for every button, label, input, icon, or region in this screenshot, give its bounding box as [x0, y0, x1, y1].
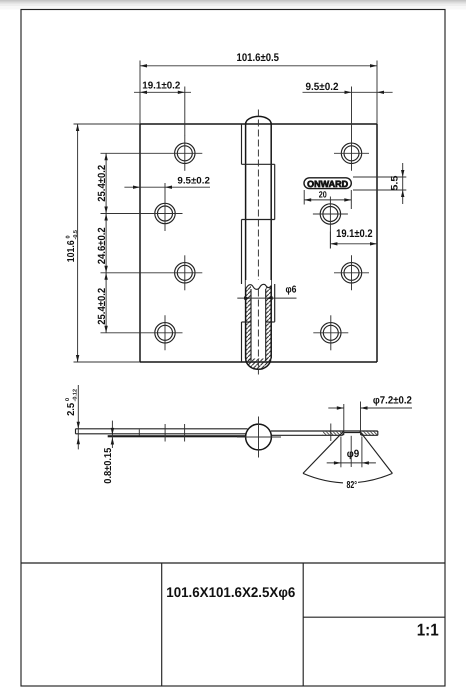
svg-text:0: 0 — [66, 235, 72, 238]
dimension φ9 countersink mouth — [327, 436, 376, 468]
dimension φ6 pin — [237, 285, 297, 300]
svg-text:20: 20 — [319, 190, 327, 200]
knuckle division line 1 — [242, 163, 275, 165]
left leaf top surface — [76, 428, 248, 430]
svg-text:101.6: 101.6 — [66, 240, 77, 262]
svg-text:5.5: 5.5 — [389, 175, 400, 191]
dimension 5.5 logo height — [353, 163, 406, 204]
svg-text:82°: 82° — [347, 480, 358, 491]
dimension 101.6±0.5 width — [140, 52, 377, 124]
svg-text:9.5±0.2: 9.5±0.2 — [306, 81, 339, 93]
hole R4 — [313, 315, 348, 350]
projection tick hole col A — [184, 424, 186, 442]
title block top line — [21, 562, 445, 564]
countersink angle fan left line — [303, 431, 344, 474]
knuckle top dome — [246, 116, 272, 124]
countersink slope left — [343, 433, 344, 436]
svg-text:24.6±0.2: 24.6±0.2 — [96, 227, 108, 264]
pin bore section hatch right wall — [266, 286, 271, 361]
chain dimension line 25.4/24.6/25.4 — [96, 153, 108, 332]
knuckle circle crosshair vertical — [258, 417, 260, 458]
dimension 2.5 0/-0.12 leaf thickness — [65, 385, 80, 449]
countersink top edge — [344, 432, 360, 434]
svg-text:φ9: φ9 — [347, 448, 360, 460]
right leaf bottom surface segments — [271, 434, 342, 436]
knuckle bottom dome (pin tip, sectioned) — [246, 359, 271, 370]
right leaf right edge — [376, 124, 378, 362]
svg-text:9.5±0.2: 9.5±0.2 — [177, 176, 210, 187]
title block divider 1 — [161, 563, 163, 686]
title block scale cell divider — [303, 616, 445, 618]
svg-text:0: 0 — [65, 398, 71, 401]
hole R1 — [334, 143, 369, 163]
svg-text:-0.12: -0.12 — [73, 389, 79, 402]
projection tick plate edge — [138, 430, 140, 436]
knuckle centerline — [257, 110, 259, 375]
countersink angle fan right line — [360, 431, 393, 474]
pin bore section hatch left wall — [246, 286, 251, 361]
left leaf knuckle-side edge segments — [241, 124, 243, 164]
right leaf end cap — [377, 431, 379, 435]
svg-text:1:1: 1:1 — [417, 621, 439, 640]
svg-text:19.1±0.2: 19.1±0.2 — [142, 80, 180, 91]
svg-text:101.6±0.5: 101.6±0.5 — [237, 52, 280, 64]
knuckle barrel left edge — [245, 124, 247, 359]
countersink slope right — [360, 433, 361, 436]
chain dimension extension lines left — [101, 152, 203, 154]
dimension 0.8±0.15 strip thickness — [103, 421, 114, 484]
dimension 9.5±0.2 left leaf — [124, 176, 210, 197]
right leaf top surface — [271, 430, 378, 432]
projection tick hole col B right — [330, 424, 332, 442]
svg-text:25.4±0.2: 25.4±0.2 — [96, 288, 108, 325]
knuckle division line 2 — [242, 219, 275, 221]
title block divider 2 — [302, 563, 304, 686]
projection tick hole col B — [164, 424, 166, 442]
svg-text:25.4±0.2: 25.4±0.2 — [96, 165, 108, 202]
hole L2 — [155, 196, 175, 231]
break wave line at section start — [246, 284, 272, 289]
folded leaf strip 0.8 thick — [108, 435, 246, 437]
knuckle circle crosshair horizontal — [237, 436, 281, 438]
left leaf bottom surface — [76, 433, 247, 435]
hole L1 — [175, 136, 195, 171]
svg-text:-0.5: -0.5 — [73, 230, 79, 239]
angle text background — [343, 479, 358, 489]
right leaf section hatch right of hole — [361, 431, 377, 435]
hole R2 — [313, 197, 348, 249]
top margin shading — [0, 0, 466, 2]
svg-text:φ6: φ6 — [286, 285, 297, 296]
right leaf knuckle-side edge segments — [274, 164, 276, 219]
pin bore inner edges — [250, 289, 252, 361]
logo ONWARD stadium — [304, 178, 351, 189]
knuckle division line 3 (interrupted by pin bore) — [242, 321, 251, 323]
dimension 19.1±0.2 right leaf — [330, 228, 377, 248]
hole L4 — [155, 315, 175, 350]
plate outline top edge — [140, 123, 377, 125]
dimension 101.6 0/-0.5 height — [66, 124, 141, 362]
svg-text:2.5: 2.5 — [66, 402, 77, 415]
hole R3 — [334, 255, 369, 290]
plate outline bottom edge — [140, 361, 377, 363]
countersink angle fan arc — [303, 473, 392, 483]
dimension 9.5±0.2 top right — [303, 81, 393, 171]
dimension φ7.2±0.2 countersink hole — [328, 394, 412, 435]
svg-text:0.8±0.15: 0.8±0.15 — [103, 447, 114, 483]
right leaf section hatch left of hole — [323, 431, 343, 435]
knuckle barrel right edge — [270, 124, 272, 359]
hole L3 — [175, 255, 195, 290]
svg-text:φ7.2±0.2: φ7.2±0.2 — [373, 394, 412, 406]
knuckle end circle — [246, 424, 272, 450]
svg-text:ONWARD: ONWARD — [307, 179, 348, 189]
dimension 20 logo width — [304, 190, 351, 210]
left leaf left edge — [139, 124, 141, 362]
svg-text:101.6X101.6X2.5Xφ6: 101.6X101.6X2.5Xφ6 — [166, 584, 295, 600]
dimension 19.1±0.2 top left — [134, 80, 191, 136]
svg-text:19.1±0.2: 19.1±0.2 — [336, 228, 373, 240]
left leaf end cap — [75, 429, 77, 434]
